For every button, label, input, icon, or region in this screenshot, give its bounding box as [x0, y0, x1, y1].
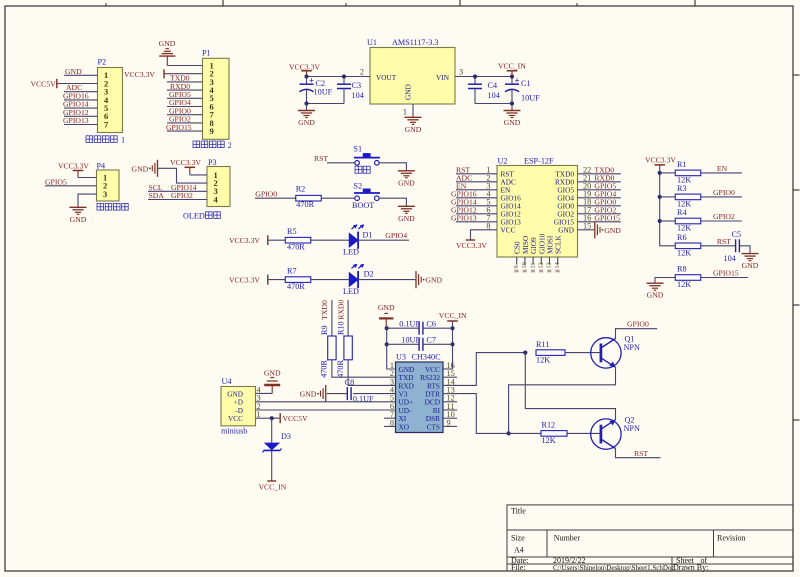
resistor R9 470R (TXD0 series) — [331, 300, 333, 336]
wire R6 to C5 — [701, 245, 736, 247]
svg-text:CTS: CTS — [427, 422, 440, 431]
svg-text:OLED: OLED — [183, 211, 205, 220]
resistor R11 12K — [536, 350, 565, 356]
svg-text:9: 9 — [513, 265, 520, 268]
svg-text:ESP-12F: ESP-12F — [524, 156, 554, 165]
junction C1 top — [510, 74, 514, 78]
svg-text:C4: C4 — [488, 81, 498, 90]
svg-text:470R: 470R — [336, 360, 345, 378]
svg-text:RST: RST — [717, 237, 731, 246]
svg-text:R6: R6 — [677, 233, 687, 242]
svg-text:GPIO13: GPIO13 — [63, 116, 89, 125]
svg-text:SDA: SDA — [149, 191, 165, 200]
svg-text:GND: GND — [398, 178, 415, 187]
junction VCC3.3V/C2 — [304, 74, 308, 78]
svg-text:GPIO13: GPIO13 — [451, 214, 477, 223]
wire VCC3.3V to R7 — [268, 279, 286, 281]
svg-text:TXD0: TXD0 — [320, 300, 329, 320]
wire R8 to GPIO15 — [701, 277, 748, 279]
wire junction to R12 — [509, 432, 542, 434]
wire D1 to GPIO4 — [358, 239, 409, 241]
svg-text:S1: S1 — [353, 145, 362, 154]
svg-text:14: 14 — [554, 262, 561, 268]
border zone ticks right — [793, 74, 800, 76]
svg-text:470R: 470R — [296, 200, 314, 209]
svg-text:VIN: VIN — [436, 73, 450, 82]
power port VCC3.3V at U2.8 — [466, 239, 475, 241]
Q2 collector wire to RST — [616, 449, 661, 458]
svg-text:12K: 12K — [677, 200, 691, 209]
wire U4 -D to U3 UD- — [256, 409, 396, 411]
junction C1 bottom — [510, 101, 514, 105]
wire C4-C1 bottom — [475, 103, 512, 105]
svg-text:GPIO15: GPIO15 — [713, 269, 739, 278]
wire R3 to GPIO0 — [701, 196, 742, 198]
svg-text:10UF: 10UF — [521, 94, 540, 103]
svg-text:VCC: VCC — [228, 414, 243, 423]
junction C4 top — [473, 74, 477, 78]
svg-text:GND: GND — [378, 303, 395, 312]
svg-text:RST: RST — [634, 449, 648, 458]
svg-text:GND: GND — [264, 368, 281, 377]
svg-text:GPIO15: GPIO15 — [166, 123, 192, 132]
junction RTS/R11/Q2-emitter — [523, 351, 527, 355]
svg-text:P1: P1 — [202, 49, 211, 58]
svg-text:Size: Size — [511, 534, 525, 543]
svg-text:File:: File: — [511, 563, 526, 572]
svg-text:VCC3.3V: VCC3.3V — [456, 241, 487, 250]
svg-text:+: + — [515, 76, 520, 86]
svg-text:10: 10 — [521, 262, 528, 268]
svg-text:R3: R3 — [677, 184, 687, 193]
svg-text:VCC3.3V: VCC3.3V — [58, 161, 89, 170]
svg-text:NPN: NPN — [624, 343, 640, 352]
svg-text:VCC: VCC — [501, 226, 516, 235]
svg-text:P2: P2 — [98, 58, 107, 67]
ground at U1 pin1 — [405, 116, 422, 118]
svg-text:D2: D2 — [364, 270, 374, 279]
connector U4 miniusb — [221, 387, 256, 426]
svg-text:GND: GND — [504, 118, 521, 127]
svg-text:VOUT: VOUT — [376, 73, 397, 82]
svg-text:12K: 12K — [677, 280, 691, 289]
U1 pin 2 wire (VOUT) — [307, 76, 371, 78]
svg-text:2: 2 — [228, 141, 232, 150]
junction VCC5V/D3 — [270, 416, 274, 420]
svg-text:RXD0: RXD0 — [337, 300, 346, 320]
svg-text:GND: GND — [132, 164, 149, 173]
wire U2.15 to ground bar — [578, 229, 595, 231]
junction GND/C7 — [385, 342, 389, 346]
svg-text:3: 3 — [459, 68, 463, 77]
capacitor C1 10UF (polarized) — [511, 77, 513, 85]
border zone ticks top — [222, 0, 224, 6]
capacitor C5 104 — [735, 239, 737, 252]
label 扩展接口2 — [193, 141, 200, 148]
voltage regulator U1 AMS1117-3.3 — [370, 48, 455, 105]
svg-text:GND: GND — [405, 125, 422, 134]
svg-text:+: + — [309, 76, 314, 86]
wire rail to R4 — [660, 220, 676, 222]
label 扩展接口1 — [86, 136, 93, 143]
wire ground to R8 — [655, 278, 675, 284]
svg-text:0.1UF: 0.1UF — [399, 319, 420, 328]
junction rail/R3 — [658, 195, 662, 199]
svg-text:GPIO4: GPIO4 — [385, 231, 407, 240]
junction C2 bottom — [304, 101, 308, 105]
svg-text:miniusb: miniusb — [221, 426, 247, 435]
svg-text:LED: LED — [343, 248, 359, 257]
svg-text:C:\Users\Shinelon\Desktop\Shee: C:\Users\Shinelon\Desktop\Sheet1.SchDoc — [553, 564, 675, 572]
svg-text:GND: GND — [300, 390, 317, 399]
resistor R8 12K — [675, 275, 701, 281]
wire R4 to GPIO2 — [701, 220, 742, 222]
svg-text:AMS1117-3.3: AMS1117-3.3 — [392, 38, 438, 47]
svg-text:VCC_IN: VCC_IN — [259, 483, 287, 492]
svg-text:LED: LED — [343, 287, 359, 296]
svg-text:VCC_IN: VCC_IN — [498, 61, 526, 70]
junction DTR/R12/Q1-emitter — [507, 431, 511, 435]
svg-text:SCLK: SCLK — [554, 235, 563, 254]
ground bar port at U2.15 — [594, 221, 596, 238]
wire U2.8 VCC to power port — [471, 230, 498, 240]
wire D3 to VCC_IN port — [271, 450, 273, 481]
capacitor C8 0.1UF on V3 — [353, 393, 395, 395]
svg-text:U2: U2 — [498, 156, 508, 165]
ground bar port at D2 — [415, 271, 417, 288]
capacitor C3 104 — [343, 77, 345, 85]
wire R1 to EN — [701, 172, 742, 174]
wire C2-C3 bottom — [307, 103, 345, 105]
svg-text:R10: R10 — [337, 321, 346, 335]
P1 pin wires — [167, 65, 202, 67]
resistor R6 12K — [675, 243, 701, 249]
connector P2 (扩展接口1) — [98, 68, 123, 133]
resistor R2 470R — [296, 195, 322, 201]
svg-text:VCC5V: VCC5V — [283, 414, 309, 423]
capacitor C2 10UF (polarized) — [306, 77, 308, 85]
svg-text:GPIO5: GPIO5 — [45, 177, 67, 186]
wire R2 to S2 — [321, 197, 355, 199]
wire U4 VCC to VCC5V bar — [256, 417, 280, 419]
ground at S1 — [398, 170, 415, 172]
svg-text:470R: 470R — [287, 243, 305, 252]
P2 pin wires — [64, 74, 98, 76]
svg-text:R7: R7 — [287, 267, 297, 276]
svg-text:GPIO2: GPIO2 — [171, 191, 193, 200]
svg-text:R5: R5 — [287, 227, 297, 236]
svg-text:11: 11 — [529, 263, 536, 269]
svg-text:P4: P4 — [97, 161, 106, 170]
wire R5 to D1 — [311, 239, 350, 241]
wire S1 to ground — [379, 163, 406, 171]
svg-text:GND: GND — [70, 215, 87, 224]
svg-text:VCC3.3V: VCC3.3V — [170, 158, 201, 167]
ground under C2 — [306, 104, 308, 111]
LED D2 — [349, 273, 358, 287]
U2 right net wires — [578, 173, 621, 175]
junction C3 top — [342, 74, 346, 78]
svg-text:104: 104 — [488, 91, 500, 100]
resistor R5 470R — [285, 237, 311, 243]
U1 pin 3 wire (VIN) — [455, 76, 512, 78]
diode D3 — [271, 418, 273, 442]
svg-text:GND: GND — [398, 214, 415, 223]
Q1 collector wire to GPIO0 — [616, 329, 658, 339]
wire P3.2 to ground bar — [158, 168, 208, 183]
wire C5 to ground — [739, 246, 750, 254]
svg-text:D3: D3 — [281, 432, 291, 441]
svg-text:C5: C5 — [732, 230, 742, 239]
svg-text:GND: GND — [404, 84, 413, 100]
wire S2 to ground — [379, 198, 406, 206]
connector P3 (OLED接口) — [207, 167, 230, 207]
resistor R3 12K — [675, 194, 701, 200]
svg-text:GND: GND — [558, 226, 574, 235]
svg-text:Drawn By:: Drawn By: — [673, 563, 708, 572]
svg-text:GPIO0: GPIO0 — [627, 320, 649, 329]
svg-text:R4: R4 — [677, 208, 687, 217]
U3 right pin stubs and numbers — [443, 368, 453, 370]
U3 left pin stubs 7,8 — [384, 417, 396, 419]
svg-text:R1: R1 — [677, 160, 687, 169]
VCC_IN rail down to U3.16 — [452, 321, 454, 369]
svg-text:R11: R11 — [536, 340, 549, 349]
svg-text:EN: EN — [717, 164, 728, 173]
svg-text:104: 104 — [352, 91, 364, 100]
wire junction down to Q2 emitter — [525, 353, 615, 420]
svg-text:GPIO15: GPIO15 — [594, 214, 620, 223]
wire D2 to ground bar — [358, 279, 415, 281]
junction rail/R4 — [658, 219, 662, 223]
svg-text:12K: 12K — [536, 355, 550, 364]
svg-text:12K: 12K — [677, 224, 691, 233]
svg-text:GPIO2: GPIO2 — [713, 212, 735, 221]
svg-text:9: 9 — [447, 418, 451, 427]
svg-text:GND: GND — [604, 226, 621, 235]
VCC3.3V rail wire — [660, 165, 676, 246]
svg-text:10UF: 10UF — [314, 87, 333, 96]
U2 left net wires — [456, 173, 497, 175]
ground under C1 — [511, 104, 513, 111]
wire R11 to Q1 base — [565, 352, 601, 354]
svg-text:Title: Title — [511, 507, 526, 516]
resistor R7 470R — [285, 277, 311, 283]
svg-text:2: 2 — [360, 68, 364, 77]
svg-text:GND: GND — [159, 39, 176, 48]
svg-text:R8: R8 — [677, 265, 687, 274]
GND rail left of C6/C7 down to U3.1 — [387, 328, 396, 369]
resistor R10 470R (RXD0 series) — [347, 300, 349, 336]
wire P4.3 to ground — [78, 194, 97, 207]
connector P4 (外设接口) — [97, 170, 120, 201]
svg-text:GND: GND — [425, 276, 442, 285]
svg-text:12K: 12K — [542, 436, 556, 445]
ground at P4.3 — [70, 206, 87, 208]
capacitor C6 0.1UF — [387, 327, 419, 329]
capacitor C4 104 — [474, 77, 476, 85]
USB-UART bridge U3 CH340C — [396, 362, 444, 433]
svg-text:NPN: NPN — [624, 424, 640, 433]
svg-text:GPIO0: GPIO0 — [713, 188, 735, 197]
svg-text:VCC3.3V: VCC3.3V — [124, 70, 155, 79]
ground bar port at P3.2 — [157, 160, 159, 177]
svg-text:C1: C1 — [521, 79, 531, 88]
svg-text:R12: R12 — [542, 421, 556, 430]
transistor Q2 NPN (emitter up) — [591, 419, 621, 449]
svg-text:GND: GND — [647, 291, 664, 300]
svg-text:R9: R9 — [320, 325, 329, 335]
svg-text:1: 1 — [121, 136, 125, 145]
wire GPIO0 to R2 — [255, 197, 296, 199]
svg-text:470R: 470R — [287, 282, 305, 291]
svg-text:470R: 470R — [320, 360, 329, 378]
svg-text:Number: Number — [554, 534, 581, 543]
ground at R8 — [647, 282, 664, 284]
svg-text:VCC3.3V: VCC3.3V — [229, 276, 260, 285]
svg-text:VCC3.3V: VCC3.3V — [229, 236, 260, 245]
junction rail/R1 — [658, 171, 662, 175]
wire U4 +D to U3 UD+ — [256, 401, 396, 403]
svg-text:GPIO0: GPIO0 — [255, 190, 277, 199]
wire U3 DTR (pin13) to R12 — [453, 394, 509, 434]
wire RST to S1 — [327, 162, 355, 164]
wire U3 RTS (pin14) to R11 — [453, 353, 525, 386]
svg-text:U1: U1 — [367, 38, 377, 47]
svg-text:XO: XO — [399, 422, 410, 431]
svg-text:GND: GND — [298, 118, 315, 127]
ground at C5 — [742, 253, 759, 255]
junction VCC_IN/C7 — [450, 342, 454, 346]
svg-text:104: 104 — [724, 254, 736, 263]
svg-text:D1: D1 — [363, 230, 373, 239]
ground bar port at C8 — [325, 385, 327, 402]
svg-text:C6: C6 — [426, 319, 436, 328]
wire R12 to Q2 base — [567, 432, 601, 434]
svg-text:U4: U4 — [222, 377, 232, 386]
svg-text:VCC3.3V: VCC3.3V — [645, 156, 676, 165]
transistor Q1 NPN — [591, 338, 621, 368]
wire R7 to D2 — [311, 279, 350, 281]
svg-text:S2: S2 — [353, 181, 362, 190]
title block — [507, 505, 793, 571]
svg-text:1: 1 — [403, 108, 407, 117]
svg-text:12K: 12K — [677, 248, 691, 257]
svg-text:U3: U3 — [396, 352, 406, 361]
capacitor C7 10UF — [387, 343, 419, 345]
svg-text:3: 3 — [103, 189, 107, 199]
wire junction up to Q1 emitter — [509, 367, 616, 433]
svg-text:CH340C: CH340C — [412, 352, 442, 361]
svg-text:P3: P3 — [208, 158, 217, 167]
svg-text:A4: A4 — [514, 546, 524, 555]
svg-text:12: 12 — [538, 262, 545, 268]
svg-text:C7: C7 — [426, 335, 436, 344]
power port VCC5V at U4 — [279, 413, 281, 423]
wire U4 GND pin to ground — [256, 392, 273, 394]
svg-text:C3: C3 — [352, 81, 362, 90]
wire VCC3.3V to R5 — [268, 239, 286, 241]
svg-text:GND: GND — [742, 261, 759, 270]
module U2 ESP-12F — [497, 166, 578, 258]
wire rail to R3 — [660, 196, 676, 198]
resistor R12 12K — [541, 431, 567, 437]
svg-text:VCC3.3V: VCC3.3V — [289, 62, 320, 71]
svg-text:VCC5V: VCC5V — [31, 79, 57, 88]
svg-text:RST: RST — [314, 154, 328, 163]
svg-text:13: 13 — [546, 262, 553, 268]
svg-text:GND: GND — [65, 67, 82, 76]
label 外设接口 — [97, 204, 104, 211]
resistor R1 12K — [675, 170, 701, 176]
U1 pin 1 (GND) stem — [412, 104, 414, 117]
junction VCC_IN/C6 — [450, 326, 454, 330]
resistor R4 12K — [675, 218, 701, 224]
ground at S2 — [398, 205, 415, 207]
wire rail to R1 — [660, 172, 676, 174]
power port VCC_IN below D3 — [267, 480, 276, 482]
LED D1 — [349, 233, 358, 247]
svg-text:9: 9 — [210, 126, 214, 136]
svg-text:10UF: 10UF — [401, 335, 420, 344]
svg-text:Revision: Revision — [717, 534, 745, 543]
svg-text:VCC_IN: VCC_IN — [439, 311, 467, 320]
svg-text:BOOT: BOOT — [352, 201, 374, 210]
junction GND/C6 — [385, 326, 389, 330]
svg-text:R2: R2 — [296, 185, 306, 194]
connector P1 (扩展接口2) — [203, 58, 230, 139]
